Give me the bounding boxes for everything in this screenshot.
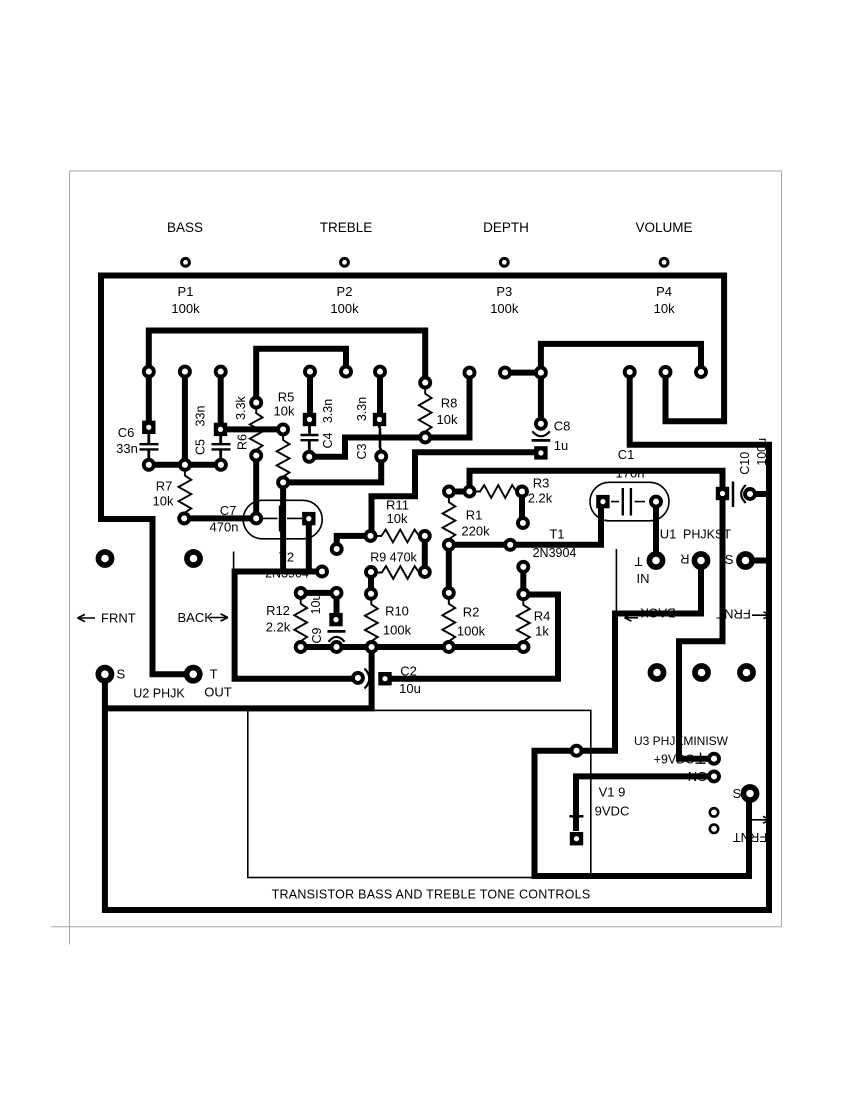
svg-text:T1: T1: [549, 526, 564, 541]
svg-text:S: S: [725, 552, 734, 567]
svg-text:10k: 10k: [274, 404, 295, 419]
svg-text:3.3n: 3.3n: [355, 397, 369, 421]
svg-text:470n: 470n: [210, 520, 239, 535]
svg-text:33n: 33n: [116, 441, 138, 456]
svg-text:C4: C4: [321, 432, 335, 448]
svg-text:33n: 33n: [193, 406, 207, 427]
svg-text:FRNT: FRNT: [101, 611, 136, 626]
svg-text:3.3n: 3.3n: [321, 399, 335, 423]
svg-text:U2 PHJK: U2 PHJK: [133, 687, 185, 701]
svg-text:C10: C10: [738, 452, 752, 475]
svg-text:V1 9: V1 9: [599, 785, 626, 800]
svg-text:R6: R6: [235, 434, 249, 450]
svg-text:S: S: [117, 667, 126, 682]
svg-text:220k: 220k: [461, 524, 490, 539]
svg-text:BACK: BACK: [178, 610, 214, 625]
svg-text:10u: 10u: [399, 681, 421, 696]
svg-text:C9: C9: [310, 627, 324, 643]
svg-text:10u: 10u: [309, 594, 323, 615]
svg-text:C5: C5: [194, 439, 208, 455]
svg-text:R4: R4: [534, 609, 551, 624]
svg-text:R: R: [680, 551, 689, 566]
svg-text:100k: 100k: [171, 301, 200, 316]
svg-text:10k: 10k: [153, 494, 174, 509]
svg-text:R8: R8: [441, 396, 458, 411]
svg-text:1k: 1k: [535, 623, 549, 638]
svg-text:2.2k: 2.2k: [528, 491, 553, 506]
svg-text:R12: R12: [266, 603, 290, 618]
svg-text:P1: P1: [178, 284, 194, 299]
svg-text:P3: P3: [496, 284, 512, 299]
svg-text:P2: P2: [337, 284, 353, 299]
svg-text:TRANSISTOR BASS AND TREBLE TON: TRANSISTOR BASS AND TREBLE TONE CONTROLS: [272, 888, 591, 902]
svg-text:U1: U1: [660, 527, 677, 542]
svg-text:IN: IN: [637, 571, 650, 586]
svg-text:P4: P4: [656, 284, 672, 299]
svg-text:100k: 100k: [490, 301, 519, 316]
svg-text:2N3904: 2N3904: [533, 546, 577, 560]
svg-text:R5: R5: [278, 390, 295, 405]
svg-text:T: T: [210, 667, 218, 682]
svg-text:R9 470k: R9 470k: [370, 551, 417, 565]
svg-text:BASS: BASS: [167, 220, 203, 235]
svg-text:VOLUME: VOLUME: [635, 220, 692, 235]
svg-text:C8: C8: [554, 419, 571, 434]
svg-text:TREBLE: TREBLE: [320, 220, 373, 235]
svg-text:9VDC: 9VDC: [595, 804, 630, 819]
svg-text:10k: 10k: [654, 301, 675, 316]
svg-text:C3: C3: [355, 443, 369, 459]
svg-text:100k: 100k: [330, 301, 359, 316]
svg-text:OUT: OUT: [204, 685, 232, 700]
svg-text:1u: 1u: [554, 438, 568, 453]
svg-text:3.3k: 3.3k: [234, 395, 248, 419]
svg-text:100k: 100k: [383, 623, 412, 638]
svg-text:10k: 10k: [387, 511, 408, 526]
svg-text:DEPTH: DEPTH: [483, 220, 529, 235]
svg-text:R2: R2: [463, 605, 480, 620]
svg-text:R10: R10: [385, 604, 409, 619]
svg-text:T: T: [634, 554, 642, 569]
svg-text:2.2k: 2.2k: [266, 620, 291, 635]
svg-text:R3: R3: [533, 476, 550, 491]
svg-text:C1: C1: [618, 447, 635, 462]
svg-text:R1: R1: [466, 508, 483, 523]
svg-text:R7: R7: [156, 479, 173, 494]
svg-text:100k: 100k: [457, 624, 486, 639]
svg-text:C6: C6: [118, 425, 135, 440]
svg-text:10k: 10k: [437, 412, 458, 427]
svg-text:S: S: [733, 786, 742, 801]
